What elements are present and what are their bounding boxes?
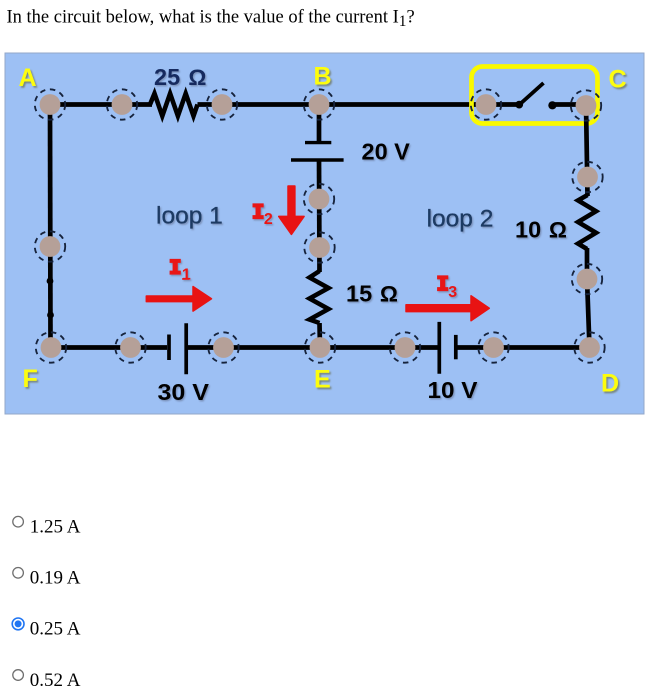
node bottom-6 junction	[478, 332, 508, 362]
node bottom-3 junction	[208, 332, 238, 362]
battery B2 30V (vertical plates)	[169, 323, 186, 374]
svg-text:1.25 A: 1.25 A	[30, 517, 81, 538]
current label I1	[170, 259, 191, 284]
svg-text:10 V: 10 V	[428, 377, 478, 403]
node D junction	[574, 332, 604, 362]
node label E	[314, 366, 331, 394]
node bottom-5 junction	[390, 332, 420, 362]
wire R2 to E	[317, 323, 322, 348]
label 10 ohm	[515, 217, 567, 243]
node label A	[19, 64, 37, 92]
node label B	[314, 63, 332, 91]
label loop 2	[427, 205, 494, 232]
node B junction	[304, 89, 334, 119]
label 30 V	[158, 379, 210, 405]
label 25 ohm	[154, 64, 206, 90]
svg-text:10 Ω: 10 Ω	[515, 217, 567, 243]
svg-text:A: A	[19, 64, 37, 92]
current arrow I2	[279, 186, 304, 234]
svg-text:25 Ω: 25 Ω	[154, 64, 206, 90]
resistor R2 15 ohm (vertical middle)	[310, 271, 329, 323]
wire F to battery 30V	[51, 345, 167, 350]
svg-text:0.19 A: 0.19 A	[30, 568, 81, 589]
node label D	[601, 370, 619, 398]
svg-text:F: F	[23, 365, 38, 393]
wire battery 20V to resistor R2	[317, 159, 322, 273]
svg-text:0.52 A: 0.52 A	[30, 670, 81, 691]
answer option radio 1 (1.25 A, unselected)	[13, 516, 81, 537]
current arrow I3	[406, 296, 489, 321]
battery B3 10V (vertical plates)	[439, 322, 456, 374]
node mid-2 junction	[304, 232, 334, 262]
node top-2 junction	[107, 89, 137, 119]
node right-2 junction	[572, 264, 602, 294]
node bottom-2 junction	[115, 332, 145, 362]
label 10 V	[428, 377, 478, 403]
node label F	[23, 365, 38, 393]
wire B down to battery 20V	[317, 105, 322, 142]
svg-text:3: 3	[448, 284, 457, 301]
resistor R1 25 ohm (horizontal)	[150, 94, 198, 117]
node switch-left junction	[471, 89, 501, 119]
junction dot on left wire (upper)	[47, 278, 54, 285]
label 15 ohm	[346, 281, 398, 307]
answer option radio 2 (0.19 A, unselected)	[13, 568, 81, 589]
answer option radio 3 (0.25 A, selected)	[12, 618, 81, 640]
current arrow I1	[146, 287, 211, 312]
svg-text:2: 2	[264, 211, 273, 228]
svg-text:D: D	[601, 370, 619, 398]
junction dot on left wire (lower)	[47, 312, 54, 319]
current label I3	[437, 275, 457, 301]
node right-1 junction	[572, 162, 602, 192]
wire battery 10V to D	[456, 345, 590, 350]
wire R1 to switch pivot	[198, 102, 520, 107]
current label I2	[253, 203, 273, 228]
switch S1 (open lever)	[515, 83, 586, 109]
node left-mid junction	[35, 231, 65, 261]
wire A to R1 (top left horizontal)	[50, 102, 152, 107]
node label C	[609, 66, 627, 94]
wire A to F (left branch)	[48, 105, 53, 348]
resistor R3 10 ohm (vertical right)	[578, 195, 596, 249]
svg-text:20 V: 20 V	[362, 139, 411, 165]
svg-text:B: B	[314, 63, 332, 91]
label loop 1	[156, 203, 223, 230]
svg-text:C: C	[609, 66, 627, 94]
wire battery 30V to battery 10V (through E)	[186, 345, 438, 350]
node top-3 junction	[207, 89, 237, 119]
circuit background panel	[5, 53, 644, 414]
question title text	[7, 8, 415, 31]
node A junction	[35, 89, 65, 119]
svg-text:1: 1	[182, 267, 191, 284]
wire C to D (right branch)	[586, 105, 590, 348]
node E junction	[305, 332, 335, 362]
label 20 V	[362, 139, 411, 165]
switch highlight box (yellow)	[472, 67, 598, 124]
svg-text:loop 1: loop 1	[156, 203, 223, 230]
battery B1 20V (horizontal plates)	[291, 143, 344, 160]
svg-text:15 Ω: 15 Ω	[346, 281, 398, 307]
svg-text:30 V: 30 V	[158, 379, 210, 405]
node C junction	[571, 90, 601, 120]
svg-text:In the circuit below, what is: In the circuit below, what is the value …	[7, 8, 415, 31]
svg-text:loop 2: loop 2	[427, 205, 494, 232]
svg-text:0.25 A: 0.25 A	[30, 619, 81, 640]
node mid-1 junction	[304, 184, 334, 214]
svg-text:E: E	[314, 366, 331, 394]
answer option radio 4 (0.52 A, unselected)	[13, 670, 81, 691]
node F junction	[36, 332, 66, 362]
